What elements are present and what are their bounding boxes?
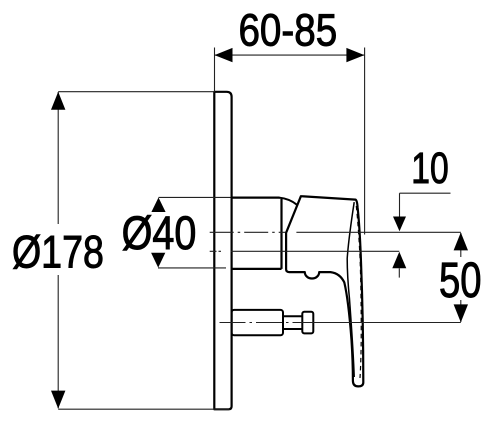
valve body — [232, 198, 282, 269]
dim 10: leader line — [400, 192, 451, 194]
dim Ø178: bottom extension line — [58, 408, 229, 410]
pipe: main cylinder — [232, 310, 283, 335]
dim 10: tail below up arrow — [398, 268, 400, 277]
dim Ø40: top arrow — [151, 198, 165, 213]
dim Ø40: bottom arrow — [151, 253, 165, 268]
svg-text:10: 10 — [411, 144, 448, 193]
dim Ø178: top extension line — [58, 91, 215, 93]
extension line3 y=322.5 to 50 dim — [316, 322, 461, 324]
lever back edge dashed inner line — [356, 206, 361, 378]
lever front inner edge — [347, 202, 354, 377]
dim 60-85: right extension line — [364, 48, 366, 235]
dim Ø178: bottom arrow — [51, 391, 65, 409]
dim 10: vertical line to top arrow — [399, 193, 401, 218]
extension line1 y=232 to 50/10 dims — [296, 231, 460, 233]
centerline lower axis (dash-dot) — [210, 250, 221, 252]
dim 60-85: left extension line — [214, 48, 216, 92]
pipe centerline (dash-dot) — [220, 322, 317, 324]
dim 10: up arrow — [392, 252, 406, 269]
dim 60-85: right arrow — [346, 48, 364, 62]
centerline cartridge axis (dash-dot) — [210, 231, 286, 233]
dim 50: vertical dimension line — [460, 233, 462, 322]
dim Ø40: top extension line — [159, 196, 231, 198]
wall plate (escutcheon, side view) — [214, 92, 231, 410]
svg-text:50: 50 — [439, 252, 482, 308]
dim 10: down arrow — [393, 217, 406, 232]
dim 60-85: left arrow — [215, 48, 233, 62]
dim Ø178: top arrow — [51, 92, 65, 110]
dim 50: down arrow — [454, 304, 468, 322]
pipe: end cap — [302, 312, 313, 334]
dim 60-85: dimension line — [215, 54, 365, 56]
dim Ø178: vertical dimension line — [57, 92, 59, 408]
body shoulder fillet — [279, 198, 297, 205]
svg-text:Ø178: Ø178 — [12, 226, 104, 277]
extension line2 y=251 to 10 dim — [231, 250, 400, 252]
pipe: neck — [283, 316, 302, 329]
handle escutcheon cap and lever silhouette — [286, 196, 363, 386]
svg-text:60-85: 60-85 — [238, 5, 337, 56]
dim Ø40: bottom extension line — [158, 267, 226, 269]
dim 50: up arrow — [454, 232, 468, 250]
svg-text:Ø40: Ø40 — [122, 206, 197, 259]
